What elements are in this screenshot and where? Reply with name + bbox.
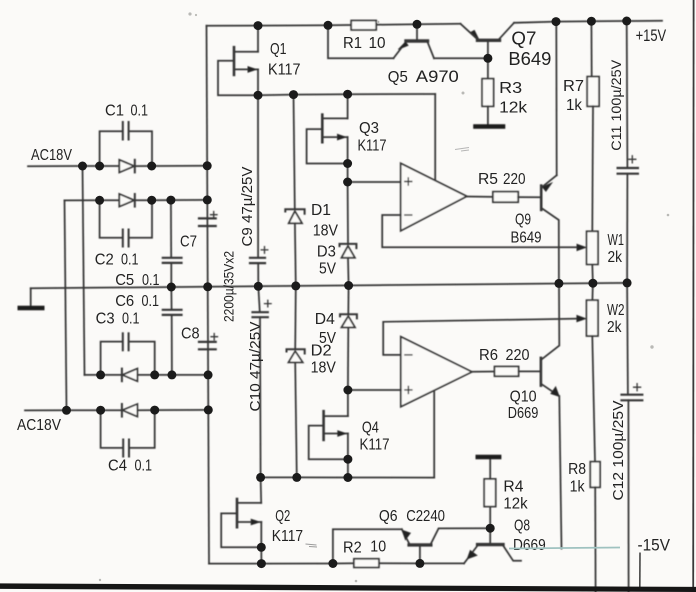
svg-text:C6: C6 bbox=[115, 293, 134, 310]
svg-text:R2: R2 bbox=[343, 540, 362, 557]
wire U2 plus input bbox=[348, 389, 401, 391]
wire top rail right section bbox=[514, 21, 662, 23]
svg-text:C11 100µ/25V: C11 100µ/25V bbox=[608, 59, 624, 151]
svg-text:R4: R4 bbox=[503, 479, 523, 496]
svg-text:R5: R5 bbox=[478, 171, 498, 188]
svg-text:0.1: 0.1 bbox=[142, 293, 160, 310]
svg-text:R3: R3 bbox=[499, 80, 522, 97]
ground symbol left bbox=[20, 288, 42, 308]
capacitor C6 bbox=[163, 287, 182, 375]
svg-text:B649: B649 bbox=[511, 230, 542, 247]
svg-text:K117: K117 bbox=[358, 138, 387, 155]
capacitor C8 bbox=[199, 334, 218, 350]
svg-text:D2: D2 bbox=[311, 343, 332, 360]
diode DC bbox=[122, 369, 208, 382]
svg-text:Q4: Q4 bbox=[362, 420, 379, 437]
svg-text:R6: R6 bbox=[479, 347, 498, 364]
transistor Q2 bbox=[221, 477, 261, 563]
svg-text:1k: 1k bbox=[566, 97, 583, 114]
svg-text:K117: K117 bbox=[268, 62, 301, 79]
transistor Q5 bbox=[394, 24, 435, 58]
svg-text:0.1: 0.1 bbox=[121, 252, 139, 269]
svg-text:0.1: 0.1 bbox=[142, 272, 160, 289]
svg-text:Q8: Q8 bbox=[514, 518, 530, 535]
svg-text:+15V: +15V bbox=[636, 27, 667, 45]
wire bottom rail bbox=[209, 562, 354, 564]
svg-text:C2240: C2240 bbox=[406, 508, 445, 525]
scan smudge near Q2 bbox=[306, 544, 318, 547]
wire column AC2 up bbox=[65, 200, 67, 410]
svg-text:12k: 12k bbox=[499, 100, 528, 117]
svg-text:AC18V: AC18V bbox=[17, 417, 61, 434]
svg-text:C7: C7 bbox=[180, 234, 197, 251]
wire Q6 emitter riser bbox=[333, 529, 402, 563]
svg-text:Q3: Q3 bbox=[359, 120, 379, 137]
wire lower node row y477 bbox=[261, 476, 435, 478]
diode DA bbox=[119, 160, 207, 173]
zener diode D3 bbox=[340, 182, 357, 286]
svg-text:Q9: Q9 bbox=[515, 212, 531, 229]
svg-text:18V: 18V bbox=[313, 223, 339, 240]
svg-text:2k: 2k bbox=[608, 249, 623, 266]
wire Q3 node to op-amp plus input bbox=[348, 164, 401, 183]
resistor R1 bbox=[351, 21, 376, 30]
svg-text:R1: R1 bbox=[343, 35, 362, 52]
wire mid ground rail bbox=[31, 283, 627, 288]
svg-text:10: 10 bbox=[370, 539, 386, 556]
wire Q5 collector to Q7 base bbox=[434, 57, 488, 59]
resistor R5 bbox=[467, 192, 541, 203]
svg-text:Q2: Q2 bbox=[275, 508, 290, 525]
svg-text:0.1: 0.1 bbox=[131, 103, 149, 120]
transistor Q7 bbox=[461, 23, 515, 59]
svg-text:Q1: Q1 bbox=[270, 41, 287, 58]
svg-text:R7: R7 bbox=[563, 78, 584, 95]
ground under R3 bbox=[476, 124, 504, 129]
svg-text:2k: 2k bbox=[607, 319, 622, 336]
svg-text:C2: C2 bbox=[95, 252, 114, 269]
diode DB bbox=[119, 194, 207, 207]
svg-text:C10 47µ/25V: C10 47µ/25V bbox=[248, 321, 264, 411]
zener diode D4 bbox=[340, 286, 357, 391]
transistor Q9 bbox=[541, 22, 559, 284]
capacitor C1 bbox=[100, 122, 152, 166]
zener diode D1 bbox=[285, 95, 304, 286]
capacitor C3 bbox=[101, 333, 155, 375]
svg-text:K117: K117 bbox=[360, 437, 390, 454]
wire top rail left section bbox=[207, 24, 461, 26]
wire U2 minus feedback to W2 wiper bbox=[383, 315, 586, 355]
diode DD bbox=[122, 404, 208, 417]
capacitor C4 bbox=[101, 410, 155, 456]
svg-text:C1: C1 bbox=[105, 103, 124, 120]
svg-text:C12 100µ/25V: C12 100µ/25V bbox=[610, 401, 627, 501]
svg-text:0.1: 0.1 bbox=[135, 458, 153, 475]
capacitor C10 bbox=[253, 286, 272, 477]
wire op-amp U2 supply rise bbox=[433, 390, 435, 477]
right scan border bbox=[692, 0, 694, 592]
wire column AC1 down bbox=[83, 166, 85, 375]
wire U1 minus feedback to W1 wiper bbox=[382, 215, 586, 251]
svg-text:D669: D669 bbox=[513, 537, 546, 554]
transistor Q4 bbox=[309, 390, 348, 478]
svg-text:Q7: Q7 bbox=[511, 29, 536, 49]
resistor R3 bbox=[482, 58, 494, 124]
svg-text:B649: B649 bbox=[508, 49, 551, 69]
svg-text:C4: C4 bbox=[108, 458, 127, 475]
wire AC input D row bbox=[25, 409, 122, 411]
bottom scan border bbox=[0, 583, 696, 592]
scan smudge right of op-amp U1 supply bbox=[455, 148, 469, 152]
ground above R4 bbox=[478, 455, 499, 460]
svg-text:W1: W1 bbox=[608, 232, 625, 249]
wire -15V lead bbox=[639, 553, 641, 589]
svg-text:220: 220 bbox=[503, 171, 526, 188]
svg-text:D1: D1 bbox=[311, 202, 331, 219]
wire op-amp U1 supply drop bbox=[434, 94, 436, 181]
transistor Q10 bbox=[541, 283, 562, 548]
svg-text:R8: R8 bbox=[568, 461, 586, 478]
svg-text:220: 220 bbox=[506, 347, 530, 364]
potentiometer W2 bbox=[587, 283, 599, 462]
scan specks bbox=[99, 12, 670, 582]
svg-text:C9 47µ/25V: C9 47µ/25V bbox=[240, 166, 256, 246]
wire main left column bbox=[207, 26, 210, 564]
svg-text:Q6: Q6 bbox=[379, 508, 398, 525]
potentiometer W1 bbox=[587, 231, 598, 283]
transistor Q6 bbox=[402, 528, 490, 563]
svg-text:C8: C8 bbox=[181, 326, 200, 343]
svg-text:C5: C5 bbox=[115, 272, 134, 289]
wire Q5 emitter to R1 left bbox=[328, 25, 394, 58]
svg-text:1k: 1k bbox=[570, 479, 586, 496]
svg-text:D4: D4 bbox=[315, 311, 335, 328]
zener diode D2 bbox=[287, 286, 305, 478]
capacitor C5 bbox=[163, 200, 182, 287]
svg-text:D669: D669 bbox=[508, 405, 539, 422]
wire rect row C bbox=[85, 374, 122, 376]
transistor Q8 bbox=[464, 528, 521, 563]
svg-text:Q10: Q10 bbox=[510, 389, 537, 406]
op-amp U2 bbox=[401, 337, 472, 407]
svg-text:A970: A970 bbox=[416, 67, 459, 86]
transistor Q1 bbox=[218, 26, 258, 96]
wire node row y95 bbox=[258, 94, 435, 95]
svg-text:5V: 5V bbox=[319, 261, 336, 278]
capacitor C7 bbox=[199, 212, 217, 227]
capacitor C11 bbox=[618, 21, 638, 283]
wire AC input A bbox=[28, 165, 119, 167]
svg-text:D3: D3 bbox=[317, 244, 336, 261]
svg-text:0.1: 0.1 bbox=[122, 311, 140, 328]
op-amp U1 bbox=[401, 163, 467, 231]
resistor R2 bbox=[354, 559, 464, 568]
svg-text:12k: 12k bbox=[503, 496, 528, 513]
svg-text:AC18V: AC18V bbox=[31, 147, 72, 164]
svg-text:K117: K117 bbox=[272, 528, 303, 545]
resistor R8 bbox=[590, 462, 600, 592]
svg-text:W2: W2 bbox=[607, 302, 625, 319]
resistor R4 bbox=[484, 460, 496, 529]
transistor Q3 bbox=[307, 94, 348, 163]
svg-text:-15V: -15V bbox=[638, 537, 671, 555]
wire AC input B row bbox=[65, 199, 120, 201]
scan artifact teal underline bbox=[509, 548, 620, 549]
svg-text:C3: C3 bbox=[96, 311, 115, 328]
capacitor C9 bbox=[250, 95, 268, 286]
svg-text:10: 10 bbox=[369, 35, 386, 52]
svg-text:2200µ/35Vx2: 2200µ/35Vx2 bbox=[222, 251, 237, 322]
svg-text:18V: 18V bbox=[311, 360, 337, 377]
resistor R6 bbox=[472, 367, 541, 377]
svg-text:Q5: Q5 bbox=[388, 69, 408, 86]
resistor R7 bbox=[587, 21, 599, 231]
capacitor C2 bbox=[100, 200, 152, 246]
capacitor C12 bbox=[622, 283, 643, 592]
